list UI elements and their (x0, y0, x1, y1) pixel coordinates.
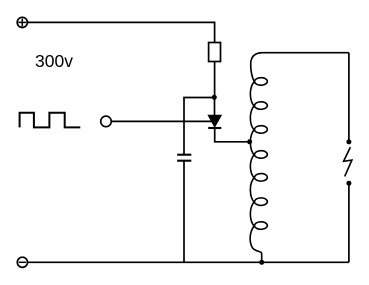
resistor (209, 43, 221, 62)
negative supply terminal (17, 257, 27, 267)
svg-text:300v: 300v (35, 51, 73, 71)
junction dot coil bottom (259, 260, 264, 265)
transformer winding (tapped coil) (250, 53, 349, 263)
wire anode node to capacitor top (184, 98, 215, 155)
input terminal circle (101, 116, 112, 127)
gate wire from input terminal to SCR gate (112, 120, 212, 122)
wire from + terminal to resistor top (27, 22, 214, 42)
wire resistor bottom to anode junction (214, 62, 216, 98)
wire capacitor bottom to negative rail (183, 161, 185, 263)
negative rail wire (27, 261, 349, 263)
spark gap top electrode dot (346, 139, 351, 144)
spark gap bottom electrode dot (346, 181, 351, 186)
capacitor (177, 155, 191, 161)
thyristor SCR (208, 98, 249, 142)
input square-wave symbol (20, 113, 81, 128)
spark gap lightning bolt (344, 147, 352, 176)
wire top rail right side down to spark gap (348, 53, 350, 142)
junction dot at SCR anode node (212, 95, 217, 100)
wire spark gap bottom to negative rail (348, 183, 350, 262)
positive supply terminal (17, 17, 27, 27)
junction dot at transformer tap (247, 139, 252, 144)
